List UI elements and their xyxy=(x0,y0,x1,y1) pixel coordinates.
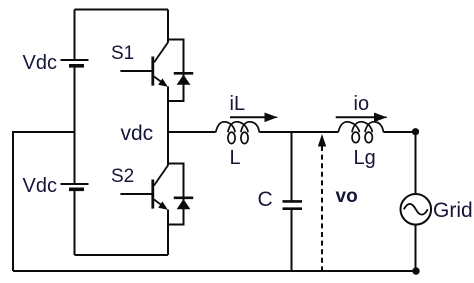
wire transistor column bottom xyxy=(167,210,169,256)
svg-text:Lg: Lg xyxy=(354,147,376,169)
svg-text:vdc: vdc xyxy=(121,122,154,145)
svg-text:iL: iL xyxy=(230,93,246,115)
arrow io xyxy=(336,113,387,123)
battery Vdc (bottom) xyxy=(61,184,89,189)
svg-text:C: C xyxy=(258,188,273,211)
AC source Grid xyxy=(401,194,432,225)
wire midpoint tap xyxy=(13,132,75,271)
svg-text:Grid: Grid xyxy=(433,199,473,222)
diode D1 xyxy=(174,73,193,85)
wire L to C node xyxy=(259,131,338,133)
arrow iL xyxy=(230,113,278,123)
wire capacitor branch lower xyxy=(291,209,293,271)
transistor S2 xyxy=(120,165,168,210)
wire vdc output node to L xyxy=(168,131,216,133)
svg-text:io: io xyxy=(354,93,370,115)
wire D1 branch xyxy=(168,40,184,102)
wire grid branch lower xyxy=(415,225,417,271)
wire transistor column middle xyxy=(167,87,169,166)
wire D2 branch xyxy=(168,164,184,225)
wire capacitor branch upper xyxy=(291,132,293,201)
arrow vo (dashed) xyxy=(318,134,326,271)
svg-text:S1: S1 xyxy=(111,43,134,64)
battery Vdc (top) xyxy=(61,60,89,66)
wire grid branch upper xyxy=(415,132,417,194)
node junction bottom (dot) xyxy=(412,267,419,274)
wire Lg to grid node xyxy=(384,131,416,133)
inductor Lg xyxy=(338,122,383,143)
wire bottom rail xyxy=(13,270,416,272)
wire top rail xyxy=(75,9,169,11)
wire battery column middle xyxy=(74,66,76,184)
wire transistor column top xyxy=(167,10,169,43)
wire bridge bottom rail xyxy=(75,254,169,256)
wire battery column lower xyxy=(74,190,76,256)
capacitor C xyxy=(283,201,303,208)
diode D2 xyxy=(174,198,193,210)
wire battery column upper xyxy=(74,10,76,61)
transistor S1 xyxy=(120,42,168,87)
svg-text:L: L xyxy=(230,147,241,169)
svg-text:S2: S2 xyxy=(111,166,134,187)
svg-text:Vdc: Vdc xyxy=(23,175,57,197)
inductor L xyxy=(216,122,260,144)
node junction top (dot) xyxy=(412,128,419,135)
svg-text:Vdc: Vdc xyxy=(23,52,57,74)
svg-text:vo: vo xyxy=(336,186,358,207)
